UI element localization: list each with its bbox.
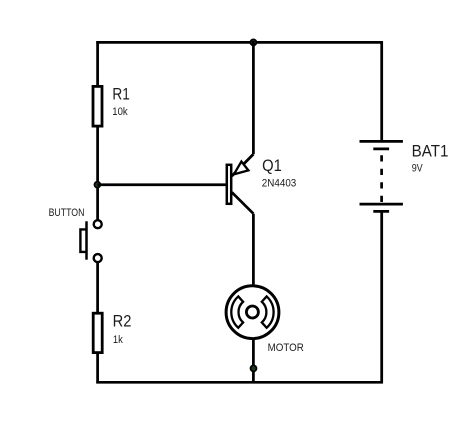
battery BAT1 plate long bottom: [360, 203, 403, 206]
button lower contact circle: [94, 254, 102, 262]
svg-text:BAT1: BAT1: [412, 141, 449, 160]
wire emitter vertical: [252, 41, 255, 154]
transistor Q1 base bar: [227, 165, 231, 204]
wire left rail bottom (R2 to bottom rail): [96, 353, 99, 384]
wire base horizontal: [97, 183, 225, 186]
wire left rail mid (R1 to button): [96, 128, 99, 221]
svg-text:R1: R1: [112, 86, 129, 104]
button actuator bar: [85, 221, 88, 259]
resistor R1: [93, 86, 102, 126]
svg-text:2N4403: 2N4403: [262, 177, 297, 189]
svg-text:Q1: Q1: [262, 157, 282, 175]
wire collector vertical to motor: [252, 214, 255, 286]
svg-text:1k: 1k: [113, 334, 123, 346]
battery dashed middle: [380, 155, 383, 202]
wire collector diagonal: [232, 192, 254, 213]
node junction at base branch: [94, 182, 100, 188]
button actuator bracket: [80, 229, 86, 252]
svg-text:9V: 9V: [412, 162, 424, 174]
wire emitter diagonal: [232, 154, 254, 176]
wire left rail lower (button to R2): [96, 262, 99, 313]
motor right brush: [262, 296, 274, 327]
motor outer circle: [226, 286, 279, 339]
battery BAT1 plate short bottom: [373, 210, 389, 213]
svg-text:10k: 10k: [112, 106, 128, 118]
node junction top middle: [250, 39, 256, 45]
wire right rail lower (battery to bottom rail): [380, 211, 383, 383]
wire left rail upper (top corner to R1): [96, 41, 99, 86]
wire right rail upper (top corner to battery): [380, 41, 383, 141]
button upper contact circle: [94, 220, 102, 228]
battery BAT1 plate long top: [360, 140, 403, 143]
motor left brush: [231, 296, 243, 327]
motor inner circle: [246, 306, 258, 318]
node junction bottom middle: [251, 365, 257, 371]
wire bottom rail: [96, 381, 383, 384]
battery BAT1 plate short top: [373, 147, 389, 150]
wire motor to bottom rail: [252, 339, 255, 382]
resistor R2: [93, 313, 102, 352]
svg-text:MOTOR: MOTOR: [268, 342, 304, 354]
wire top rail: [96, 41, 383, 44]
svg-text:R2: R2: [113, 312, 132, 330]
svg-text:BUTTON: BUTTON: [49, 207, 85, 219]
transistor Q1 emitter arrowhead: [234, 162, 249, 175]
